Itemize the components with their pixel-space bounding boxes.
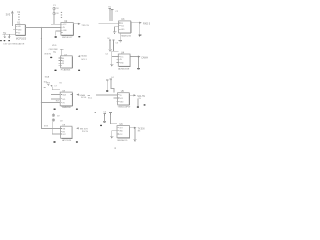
svg-text:VDD: VDD bbox=[52, 45, 57, 47]
supply symbol 2 above U2 bbox=[53, 12, 55, 15]
svg-text:PG 5V: PG 5V bbox=[82, 131, 89, 133]
GND tag under U7 right bbox=[78, 70, 80, 71]
output arrow U5 bbox=[134, 94, 137, 96]
wire down to ground from input bbox=[8, 34, 10, 36]
wire ground drop right of U5 bbox=[137, 99, 139, 107]
stray tick mark under U6 bbox=[114, 148, 116, 149]
wire power to U5 top bbox=[111, 80, 114, 92]
wire U5 output bbox=[130, 94, 134, 96]
GND tag right of U5 value bbox=[144, 104, 146, 105]
input arrow at U9 right bbox=[76, 127, 79, 129]
svg-text:VS: VS bbox=[62, 102, 64, 104]
power T-bar above U7 bbox=[60, 49, 63, 56]
GND net tag 1 bbox=[0, 40, 2, 41]
IC U6 bbox=[117, 126, 130, 138]
power flag above U6 left bbox=[103, 114, 106, 116]
GND tag left of U6 bbox=[100, 125, 102, 126]
wire power into U6 top bbox=[111, 115, 118, 124]
svg-text:C6: C6 bbox=[53, 52, 55, 54]
supply symbol 2 above U9 bbox=[52, 119, 54, 122]
svg-text:CANH: CANH bbox=[141, 56, 148, 59]
wire U2 pin3 with ground drop bbox=[56, 31, 61, 35]
svg-text:SDA: SDA bbox=[45, 75, 50, 78]
svg-text:3V3: 3V3 bbox=[6, 13, 11, 17]
GND net tag 2 bbox=[4, 40, 6, 41]
wire U8 pin2 bbox=[51, 98, 60, 100]
GND tag under U2 right bbox=[78, 36, 80, 37]
IC U8 bbox=[60, 92, 72, 106]
ground 2 under input bbox=[3, 36, 5, 39]
svg-text:MAX3232: MAX3232 bbox=[121, 34, 131, 37]
wire into U5 pin1 bbox=[96, 94, 118, 96]
wire ground drop at U3 output bbox=[139, 23, 141, 34]
wire U3 pin2 to ground bbox=[115, 27, 119, 32]
capacitor C3b above U4 bbox=[113, 40, 115, 51]
capacitor C above U3 bbox=[111, 9, 113, 10]
wire R1 down to U3 bbox=[109, 11, 111, 21]
svg-text:IO REF: IO REF bbox=[51, 49, 59, 51]
wire U3 bottom to ground bbox=[119, 33, 121, 40]
IC U2 bbox=[61, 23, 74, 36]
wire down to ground left of U4 bbox=[111, 51, 113, 64]
svg-text:MCP1825: MCP1825 bbox=[16, 39, 27, 41]
svg-text:SCL0: SCL0 bbox=[81, 97, 87, 99]
junction bus/U8 wire bbox=[41, 102, 42, 103]
GND tag under U7 left bbox=[54, 70, 56, 71]
tick right of U8 labels bbox=[88, 94, 90, 97]
power flag +V above U1 bbox=[11, 11, 13, 14]
output arrow U2 bbox=[78, 23, 81, 25]
net label (vertical) above U2 bbox=[61, 12, 62, 18]
wire U3 output bbox=[131, 22, 139, 24]
svg-text:TXD 5V: TXD 5V bbox=[81, 25, 89, 27]
ground under C3a bbox=[108, 49, 112, 51]
power flag above U5 left bbox=[106, 80, 109, 82]
wire U6 pin2 to ground bbox=[112, 131, 117, 137]
wire C2 down to U3 bbox=[111, 11, 113, 21]
wire into U3 bbox=[99, 22, 119, 24]
wire ground drop at U4 output bbox=[137, 57, 139, 68]
svg-text:SDA1: SDA1 bbox=[81, 54, 87, 57]
svg-text:BME280: BME280 bbox=[62, 107, 71, 109]
wire supply to U2 pin1 bbox=[51, 15, 61, 24]
GND tag left of U7 bbox=[50, 57, 52, 58]
wire into U5 pin2 bbox=[113, 97, 117, 99]
small ground under U6 cap bbox=[103, 121, 106, 124]
ground under U1 input bbox=[8, 37, 11, 39]
power flag above U3 left bbox=[109, 9, 111, 11]
IC U5 bbox=[118, 93, 130, 106]
wire U1 output to U2 bbox=[26, 26, 61, 28]
svg-text:3.3V LDO REGULATOR: 3.3V LDO REGULATOR bbox=[3, 43, 25, 46]
IC U3 bbox=[119, 21, 131, 33]
IC U7 bbox=[58, 56, 72, 68]
input arrow at U8 right bbox=[76, 94, 79, 96]
ground under U4 output bbox=[137, 67, 140, 70]
GND tag under U9 right bbox=[76, 141, 78, 142]
svg-text:TXB0104PW: TXB0104PW bbox=[118, 107, 132, 109]
svg-text:R2: R2 bbox=[60, 83, 62, 85]
svg-text:B1: B1 bbox=[62, 63, 64, 65]
wire from power flag to U1 pin VIN bbox=[11, 14, 13, 26]
power flag above U5 right bbox=[110, 79, 113, 80]
junction on bus bbox=[41, 38, 42, 39]
wire U6 output bbox=[130, 127, 134, 129]
junction on output wire bbox=[41, 27, 42, 28]
GND tag under U5 cap bbox=[106, 90, 108, 91]
GND tag under U8 right bbox=[76, 109, 78, 110]
ground under U3 bbox=[119, 40, 122, 42]
GND tag under U8 left bbox=[54, 109, 56, 110]
svg-text:PCA9306: PCA9306 bbox=[61, 68, 71, 71]
wire input to U1 pin3 bbox=[2, 33, 15, 35]
svg-text:OUT: OUT bbox=[119, 128, 122, 130]
wire cluster into U4 top bbox=[112, 50, 119, 52]
wire into U8 pin1 bbox=[52, 87, 60, 90]
svg-text:C7: C7 bbox=[54, 85, 56, 87]
input arrow at U7 right bbox=[78, 55, 81, 57]
wire U4 output bbox=[130, 56, 138, 58]
output arrow U6 bbox=[134, 127, 137, 129]
svg-text:ADM3055E: ADM3055E bbox=[118, 68, 130, 71]
svg-text:SCL: SCL bbox=[62, 99, 65, 101]
ground left of U6 bbox=[110, 137, 113, 139]
vertical power bus bbox=[41, 27, 60, 128]
wire U2 output bbox=[74, 23, 78, 25]
bus tick mark bbox=[44, 86, 46, 89]
wire U8 pin1 bbox=[51, 94, 60, 96]
ground under U6 output bbox=[134, 139, 137, 141]
wire cap to ground left of U5 bbox=[106, 82, 108, 90]
ground left of U4 bbox=[110, 65, 113, 67]
supply symbol 1 above U2 bbox=[53, 7, 55, 10]
output arrow U4 bbox=[138, 56, 141, 58]
svg-text:SCL1: SCL1 bbox=[81, 59, 87, 61]
wire stub to second ground bbox=[4, 34, 6, 36]
supply symbol 1 above U9 bbox=[52, 114, 54, 117]
power flag above U8 bbox=[47, 84, 53, 86]
wire stub U5 pin3 bbox=[116, 101, 117, 103]
GND tag under U2 left bbox=[55, 36, 57, 38]
svg-text:AP2112K: AP2112K bbox=[62, 139, 72, 142]
svg-text:SN74LV1T: SN74LV1T bbox=[62, 37, 73, 39]
ground under U3 output bbox=[138, 35, 141, 37]
wire ground drop right of U6 bbox=[134, 128, 136, 139]
ground left under U3 bbox=[113, 32, 116, 34]
stray tick mark right of U8 bbox=[95, 112, 96, 113]
power flag above U6 right bbox=[109, 113, 112, 115]
svg-text:SN65HVD: SN65HVD bbox=[117, 140, 128, 142]
GND tag under U5 output bbox=[137, 106, 139, 107]
wire supply down to U9 pin3 bbox=[52, 121, 60, 134]
wire stub above U7 bbox=[53, 51, 56, 53]
IC U4 bbox=[116, 54, 130, 67]
wire between supplies bbox=[53, 10, 55, 12]
svg-text:RXD 5V: RXD 5V bbox=[143, 23, 150, 26]
IC U9 bbox=[61, 126, 73, 138]
output arrow U3 bbox=[139, 22, 142, 24]
regulator U1 bbox=[16, 25, 26, 36]
wire bus to U8 pin3 bbox=[41, 101, 60, 103]
GND net tag 3 bbox=[8, 40, 10, 41]
GND tag under U9 left bbox=[53, 141, 55, 142]
wire cap to small ground bbox=[104, 116, 106, 121]
wire into U4 pin1 bbox=[112, 55, 119, 57]
svg-text:3V3 IN: 3V3 IN bbox=[44, 54, 51, 56]
wire U1 pin2 stub bbox=[13, 28, 15, 30]
capacitor C3a above U4 bbox=[109, 40, 111, 49]
